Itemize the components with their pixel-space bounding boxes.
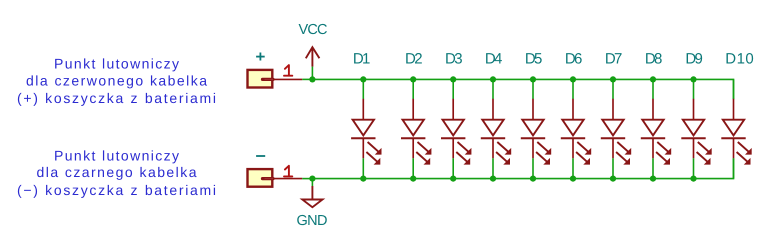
junction: D8 top — [650, 76, 656, 82]
wire: D1 cathode stub — [362, 158, 364, 178]
LED D4 — [481, 99, 511, 165]
wire: D4 cathode stub — [492, 158, 494, 178]
svg-text:(−) koszyczka z bateriami: (−) koszyczka z bateriami — [17, 182, 216, 198]
LED D7 — [601, 99, 631, 165]
wire: VCC stub — [311, 67, 313, 80]
LED D6 — [561, 99, 591, 165]
LED D3 — [441, 99, 471, 165]
LED D8 — [641, 99, 671, 165]
wire: D8 anode stub — [652, 79, 654, 99]
junction: D5 top — [530, 76, 536, 82]
junction: D3 bottom — [450, 176, 456, 182]
LED D1 — [351, 99, 381, 165]
pin number 1 (-) — [284, 166, 292, 177]
wire: D2 anode stub — [412, 79, 414, 99]
wire: D8 cathode stub — [652, 158, 654, 178]
LED D2 — [401, 99, 431, 165]
junction: D4 top — [490, 76, 496, 82]
pin 1 of + connector — [274, 78, 303, 80]
pin 1 of - connector — [274, 178, 303, 180]
wire: D5 cathode stub — [532, 158, 534, 178]
junction: D9 top — [690, 76, 696, 82]
svg-text:VCC: VCC — [299, 22, 328, 38]
power VCC — [306, 47, 320, 66]
junction: D2 bottom — [410, 176, 416, 182]
svg-text:(+) koszyczka z bateriami: (+) koszyczka z bateriami — [17, 90, 216, 106]
svg-text:D8: D8 — [645, 51, 663, 68]
wire: D5 anode stub — [532, 79, 534, 99]
junction: D2 top — [410, 76, 416, 82]
connector solder point - — [248, 169, 274, 187]
svg-text:D1: D1 — [353, 51, 371, 68]
svg-text:Punkt lutowniczy: Punkt lutowniczy — [54, 56, 179, 72]
wire: D1 anode stub — [362, 79, 364, 99]
wire: D2 cathode stub — [412, 158, 414, 178]
note: solder point for black battery-holder cable — [17, 148, 216, 198]
junction: GND node — [309, 176, 315, 182]
junction: D6 bottom — [570, 176, 576, 182]
svg-text:D7: D7 — [605, 51, 623, 68]
junction: D1 bottom — [360, 176, 366, 182]
svg-text:D6: D6 — [565, 51, 583, 68]
junction: VCC node — [309, 76, 315, 82]
svg-text:dla czarnego kabelka: dla czarnego kabelka — [37, 164, 197, 180]
wire: D10 cathode stub — [733, 158, 735, 178]
svg-text:D4: D4 — [485, 51, 503, 68]
junction: D9 bottom — [690, 176, 696, 182]
wire: + pin to VCC node — [302, 78, 312, 80]
wire: GND stub — [311, 179, 313, 186]
svg-text:D2: D2 — [405, 51, 423, 68]
junction: D6 top — [570, 76, 576, 82]
wire: top rail to D10 — [312, 79, 733, 99]
wire: D6 cathode stub — [572, 158, 574, 178]
junction: D4 bottom — [490, 176, 496, 182]
LED D9 — [681, 99, 711, 165]
wire: D10 anode stub — [733, 79, 735, 99]
junction: D7 top — [610, 76, 616, 82]
svg-text:D9: D9 — [685, 51, 703, 68]
pin number 1 (+) — [284, 65, 292, 76]
wire: D7 anode stub — [612, 79, 614, 99]
wire: D4 anode stub — [492, 79, 494, 99]
LED D5 — [521, 99, 551, 165]
wire: - pin to GND node — [302, 178, 312, 180]
junction: D1 top — [360, 76, 366, 82]
wire: D9 cathode stub — [693, 158, 695, 178]
svg-text:D10: D10 — [725, 51, 754, 68]
svg-text:D5: D5 — [525, 51, 543, 68]
connector solder point + — [248, 70, 274, 88]
junction: D3 top — [450, 76, 456, 82]
svg-text:D3: D3 — [445, 51, 463, 68]
LED D10 — [721, 99, 751, 165]
wire: D7 cathode stub — [612, 158, 614, 178]
svg-text:GND: GND — [297, 213, 328, 229]
note: solder point for red battery-holder cable — [17, 56, 216, 106]
svg-text:Punkt lutowniczy: Punkt lutowniczy — [54, 148, 179, 164]
junction: D8 bottom — [650, 176, 656, 182]
junction: D7 bottom — [610, 176, 616, 182]
svg-text:dla czerwonego kabelka: dla czerwonego kabelka — [26, 72, 207, 88]
wire: D3 anode stub — [452, 79, 454, 99]
label + — [256, 53, 265, 61]
wire: bottom rail to D10 — [312, 158, 733, 178]
wire: D6 anode stub — [572, 79, 574, 99]
label - — [256, 155, 265, 157]
junction: D5 bottom — [530, 176, 536, 182]
ground GND — [302, 186, 322, 207]
wire: D9 anode stub — [693, 79, 695, 99]
wire: D3 cathode stub — [452, 158, 454, 178]
